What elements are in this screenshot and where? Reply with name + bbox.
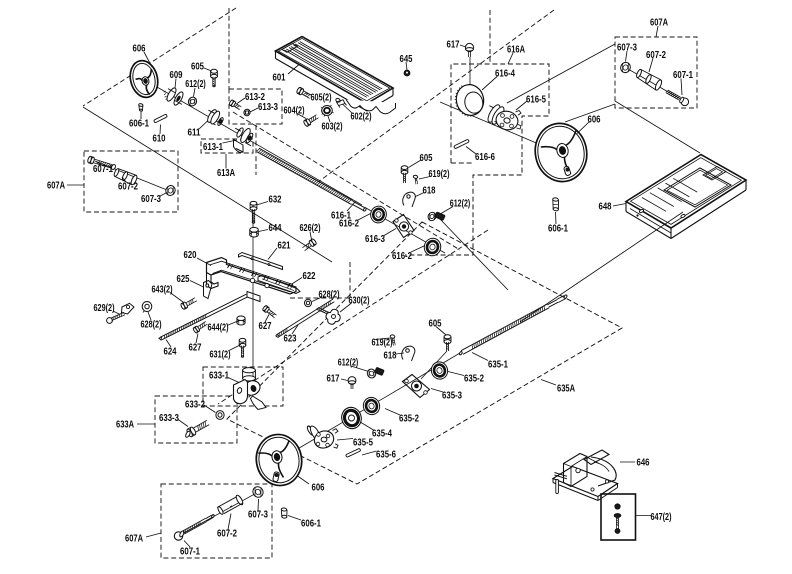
dial ring 616-4	[453, 82, 486, 118]
svg-text:602(2): 602(2)	[351, 112, 372, 123]
gib 625	[204, 281, 213, 299]
handwheel 606 right	[530, 119, 592, 187]
bracket 616-3	[393, 215, 414, 238]
svg-text:631(2): 631(2)	[210, 350, 231, 361]
dashed diagonal near 616A	[318, 10, 554, 182]
svg-text:616-6: 616-6	[475, 152, 495, 163]
roller 616-2 lower	[422, 236, 442, 257]
dashed segment H1	[290, 297, 350, 299]
screw 605 top	[211, 69, 218, 73]
svg-text:628(2): 628(2)	[319, 289, 340, 300]
svg-text:635-4: 635-4	[372, 429, 392, 440]
washer 628(2) right	[305, 299, 312, 306]
svg-text:616-4: 616-4	[495, 69, 515, 80]
nut 645	[404, 70, 410, 76]
svg-text:607-3: 607-3	[248, 510, 268, 521]
svg-text:644: 644	[269, 223, 282, 234]
dashed box 607A top-left	[84, 151, 178, 212]
dashed box 633A	[155, 396, 237, 443]
coupler 635-5	[306, 425, 315, 436]
clip 602(2)	[335, 98, 341, 103]
svg-text:628(2): 628(2)	[141, 320, 162, 331]
screw 626(2)	[302, 243, 309, 248]
handwheel 606 top-left	[126, 58, 161, 101]
washer 628(2) left	[142, 302, 152, 312]
bolt 612(2) mid	[427, 211, 438, 222]
svg-text:607A: 607A	[650, 18, 668, 29]
svg-text:616-5: 616-5	[526, 94, 546, 105]
svg-text:605(2): 605(2)	[311, 93, 332, 104]
screw 617 top	[465, 43, 473, 51]
screw 605(2)	[302, 94, 310, 98]
svg-text:635-2: 635-2	[464, 374, 484, 385]
dashed box 613-2/613-3	[229, 89, 282, 124]
svg-text:612(2): 612(2)	[450, 199, 471, 210]
sleeve 607-2 TL	[113, 168, 120, 177]
screw 605 mid	[401, 166, 408, 170]
screw 619(2) bottom	[390, 335, 395, 339]
svg-text:635A: 635A	[557, 384, 575, 395]
bracket 635-3	[403, 375, 430, 398]
svg-text:633-2: 633-2	[185, 400, 205, 411]
svg-text:609: 609	[170, 70, 183, 81]
dashed parallelogram 635A	[227, 222, 622, 484]
svg-text:621: 621	[278, 240, 291, 251]
cup 635-2 upper	[429, 360, 450, 382]
svg-text:632: 632	[269, 195, 282, 206]
svg-text:643(2): 643(2)	[152, 285, 173, 296]
svg-text:635-1: 635-1	[488, 360, 508, 371]
saddle 620	[207, 258, 297, 295]
svg-text:607-3: 607-3	[617, 43, 637, 54]
handwheel 606 bottom	[252, 431, 305, 489]
axis line 616 rollers	[366, 208, 445, 253]
svg-text:616-2: 616-2	[392, 251, 412, 262]
svg-text:606: 606	[312, 483, 325, 494]
set screw 606-1 bottom	[281, 508, 287, 511]
svg-text:613A: 613A	[217, 168, 235, 179]
pin 635-6	[346, 448, 361, 457]
axis 607A top box	[95, 161, 172, 192]
svg-text:647(2): 647(2)	[651, 512, 672, 523]
dashed box 613-1	[201, 139, 253, 153]
svg-text:605: 605	[191, 62, 204, 73]
svg-text:644(2): 644(2)	[208, 323, 229, 334]
pin 610	[154, 114, 168, 123]
svg-text:648: 648	[599, 202, 612, 213]
nut 612(2) top-left	[187, 96, 198, 108]
dashed segment H2	[349, 262, 351, 298]
screw 643(2)	[188, 301, 197, 306]
svg-text:601: 601	[273, 73, 286, 84]
cup 635-2 lower	[361, 395, 382, 417]
screw 627 left	[200, 324, 208, 329]
svg-text:606: 606	[133, 44, 146, 55]
bearing 635-4	[339, 405, 364, 431]
lever 629(2)	[107, 318, 113, 324]
svg-text:607-2: 607-2	[118, 182, 138, 193]
rod 624	[162, 297, 248, 340]
svg-text:627: 627	[189, 343, 202, 354]
dashed diagonal central-lower	[218, 230, 488, 404]
svg-text:616A: 616A	[507, 45, 525, 56]
gib strip 622	[258, 276, 300, 294]
svg-text:626(2): 626(2)	[300, 223, 321, 234]
axis 607A bottom box	[180, 490, 262, 535]
svg-text:624: 624	[164, 347, 177, 358]
dashed staircase 616A box	[405, 64, 549, 255]
svg-text:633-1: 633-1	[209, 371, 229, 382]
screw 613-2	[234, 106, 240, 110]
dashed segment 616A inner	[451, 162, 473, 164]
link line 607A box to coupler	[507, 44, 615, 103]
svg-text:646: 646	[637, 458, 650, 469]
svg-text:616-3: 616-3	[365, 234, 385, 245]
svg-text:605: 605	[420, 153, 433, 164]
svg-text:607A: 607A	[125, 534, 143, 545]
coupler 616-5	[486, 103, 503, 124]
bracket 633-1	[243, 368, 256, 373]
screw 605 bottom	[444, 335, 451, 339]
svg-text:607-1: 607-1	[673, 70, 693, 81]
dial 609	[165, 87, 178, 103]
knob 630(2)	[317, 310, 329, 315]
svg-text:613-3: 613-3	[258, 102, 278, 113]
sleeve 607-2 TR	[636, 69, 643, 78]
nut 644	[250, 227, 259, 232]
svg-text:607-3: 607-3	[141, 194, 161, 205]
svg-text:622: 622	[303, 271, 316, 282]
dashed boundary line top-left	[83, 8, 236, 106]
link line to 648 lower	[520, 212, 683, 322]
svg-text:606-1: 606-1	[129, 119, 149, 130]
svg-text:606-1: 606-1	[548, 224, 568, 235]
leader lines	[67, 26, 682, 547]
svg-text:616-2: 616-2	[339, 218, 359, 229]
leadscrew 616-1	[257, 152, 351, 205]
key 616-6	[454, 139, 470, 149]
svg-text:604(2): 604(2)	[284, 106, 305, 117]
nut 607-3 TL	[164, 184, 177, 197]
svg-text:603(2): 603(2)	[322, 122, 343, 133]
nut 607-3 bottom	[251, 485, 265, 499]
gib strip 621	[239, 253, 283, 270]
dashed diagonal table to stair	[233, 112, 460, 250]
screw 647(2)	[615, 504, 620, 509]
screw 604(2)	[311, 118, 319, 123]
svg-text:618: 618	[423, 186, 436, 197]
svg-text:620: 620	[184, 250, 197, 261]
round nut 603(2)	[322, 106, 333, 116]
clip 618 bottom	[402, 346, 415, 361]
link line V-arm	[440, 219, 508, 290]
set screw 606-1	[138, 103, 143, 107]
screw 607-1 TL	[94, 163, 112, 169]
base 648	[626, 155, 746, 229]
svg-text:635-2: 635-2	[399, 414, 419, 425]
svg-text:612(2): 612(2)	[185, 79, 206, 90]
axis line bottom 635 group	[284, 353, 460, 457]
box 647(2)	[601, 494, 636, 540]
svg-text:630(2): 630(2)	[349, 296, 370, 307]
link line 605 bottom axis	[421, 351, 447, 379]
sleeve 607-2 bottom	[217, 506, 224, 515]
ring 633-2	[216, 411, 224, 420]
dashed box 607A bottom	[161, 484, 272, 558]
svg-text:625: 625	[177, 274, 190, 285]
dashed box 607A top-right	[615, 37, 697, 108]
dashed box 633-1	[203, 367, 283, 406]
axis line 617 to dial	[469, 57, 471, 88]
svg-text:612(2): 612(2)	[338, 358, 359, 369]
svg-text:619(2): 619(2)	[372, 338, 393, 349]
leadscrew nut 613-1	[236, 127, 245, 138]
svg-text:619(2): 619(2)	[429, 169, 450, 180]
axis line 616A wheel	[440, 102, 548, 148]
axis vertical 632-633	[252, 205, 254, 385]
part number labels	[47, 18, 693, 558]
svg-text:607-1: 607-1	[93, 164, 113, 175]
screw 627 right	[267, 312, 274, 318]
svg-text:623: 623	[284, 334, 297, 345]
svg-text:627: 627	[259, 321, 272, 332]
bushing 611	[206, 108, 218, 123]
screw 607-1 TR	[666, 93, 679, 100]
nut 613-3	[243, 108, 252, 117]
svg-text:633A: 633A	[116, 420, 134, 431]
svg-text:607A: 607A	[47, 181, 65, 192]
svg-text:605: 605	[429, 319, 442, 330]
svg-text:618: 618	[384, 351, 397, 362]
vise 646	[553, 450, 618, 501]
solid construction line S1	[83, 107, 332, 262]
set screw 606-1 right	[553, 198, 559, 202]
svg-text:633-3: 633-3	[159, 413, 179, 424]
svg-text:635-5: 635-5	[353, 438, 373, 449]
axis line assembly 1	[150, 83, 362, 205]
rod 623	[279, 302, 335, 337]
svg-text:607-2: 607-2	[217, 529, 237, 540]
dashed vertical boundary x232	[228, 8, 230, 89]
bolt 632	[250, 201, 257, 205]
svg-text:611: 611	[188, 128, 201, 139]
svg-text:635-6: 635-6	[376, 450, 396, 461]
leadscrew 635-1	[463, 308, 549, 355]
dashed segment below 613 box	[255, 125, 257, 175]
screw 633-3	[196, 425, 209, 432]
clip 618 mid	[403, 192, 416, 207]
svg-text:629(2): 629(2)	[94, 303, 115, 314]
link line 607A box to 648	[615, 101, 700, 153]
table 601	[276, 37, 394, 104]
screw 619(2) mid	[413, 175, 418, 179]
svg-text:645: 645	[400, 54, 413, 65]
axis 607A right box	[628, 69, 684, 101]
svg-text:617: 617	[327, 374, 340, 385]
svg-text:607-1: 607-1	[180, 547, 200, 558]
svg-text:635-3: 635-3	[442, 391, 462, 402]
nut 644(2)	[237, 316, 245, 321]
svg-text:607-2: 607-2	[646, 50, 666, 61]
svg-text:606: 606	[588, 115, 601, 126]
svg-text:610: 610	[153, 134, 166, 145]
link line 607A box to wheel	[565, 104, 615, 122]
dashed vertical x490	[489, 10, 491, 62]
bolt 631(2)	[239, 338, 246, 342]
svg-text:606-1: 606-1	[301, 519, 321, 530]
svg-text:613-1: 613-1	[203, 142, 223, 153]
roller 616-2 upper	[369, 204, 388, 224]
svg-text:617: 617	[447, 40, 460, 51]
nut 607-3 TR	[619, 61, 632, 74]
nut 612(2) bottom	[366, 368, 378, 380]
screw 607-1 bottom	[174, 532, 182, 540]
screw 617 bottom	[348, 377, 356, 385]
